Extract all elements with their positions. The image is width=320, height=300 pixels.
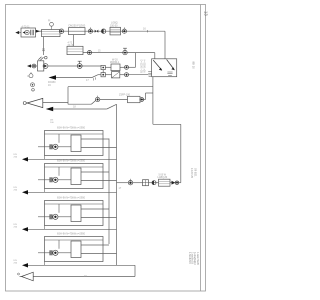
svg-text:H=2500 x16: H=2500 x16	[142, 60, 145, 74]
svg-text:4.wkd73s28: 4.wkd73s28	[196, 252, 199, 265]
svg-text:ZDRW-1: ZDRW-1	[110, 61, 120, 64]
svg-text:DN250 FQ300: DN250 FQ300	[69, 24, 86, 28]
svg-text:1:100 25: 1:100 25	[190, 168, 194, 179]
svg-text:6SH-9A N=75kW n=2950: 6SH-9A N=75kW n=2950	[57, 197, 86, 200]
svg-text:1.hkx8df20: 1.hkx8df20	[188, 252, 191, 264]
svg-text:XF-III: XF-III	[68, 45, 74, 47]
svg-text:D=1200 H25: D=1200 H25	[139, 60, 142, 74]
svg-text:PI: PI	[48, 20, 51, 23]
svg-text:6SH-9A N=75kW n=2950: 6SH-9A N=75kW n=2950	[57, 160, 86, 163]
svg-text:6SH-9A N=75kW n=2950: 6SH-9A N=75kW n=2950	[57, 233, 86, 236]
svg-text:3.dkw8s610: 3.dkw8s610	[193, 252, 196, 265]
svg-text:6SH-9A N=75kW n=2950: 6SH-9A N=75kW n=2950	[57, 127, 86, 130]
svg-text:150-50: 150-50	[110, 24, 118, 27]
svg-text:ZSFP-100: ZSFP-100	[119, 93, 131, 96]
svg-text:S9 B21: S9 B21	[194, 168, 198, 177]
svg-text:2.sjw3kd15: 2.sjw3kd15	[191, 252, 194, 265]
svg-text:13: 13	[204, 11, 209, 16]
svg-text:8B 10: 8B 10	[192, 62, 196, 70]
svg-text:4-72-11: 4-72-11	[22, 25, 31, 28]
svg-text:LGBQ-80: LGBQ-80	[158, 177, 168, 179]
